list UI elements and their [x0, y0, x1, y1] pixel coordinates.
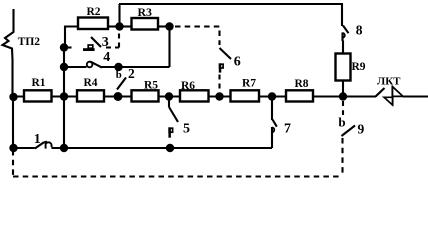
wire right branch down to switch 8: [341, 3, 343, 26]
contact 2 blade: [117, 66, 135, 90]
svg-text:4: 4: [103, 50, 110, 65]
resistor R5: [132, 80, 159, 102]
node left/bottom: [9, 144, 17, 152]
svg-text:R3: R3: [138, 5, 153, 19]
node rail2/bottom: [60, 144, 68, 152]
svg-text:R4: R4: [84, 77, 98, 89]
wire node up to top bus: [118, 4, 120, 27]
svg-text:ЛКТ: ЛКТ: [377, 75, 401, 87]
node rail2/sw3: [60, 43, 68, 51]
contact 4 blade: [90, 50, 110, 68]
node sw5 bottom: [166, 144, 174, 152]
arrester LKT symbol: [384, 86, 403, 106]
node R6/R7: [215, 92, 223, 100]
svg-text:R8: R8: [295, 78, 309, 90]
node TP2/R1: [9, 93, 17, 101]
wire switch 7 branch: [271, 97, 273, 121]
resistor R2: [78, 6, 108, 29]
label p of switch 6: [219, 63, 223, 72]
resistor R6: [180, 80, 209, 101]
node R8/R9: [339, 92, 347, 100]
svg-text:7: 7: [284, 121, 291, 136]
node R1/R4: [60, 92, 68, 100]
resistor R9: [336, 54, 366, 81]
wire R3 node down to switch4 row: [168, 27, 170, 68]
contact 8: [343, 22, 363, 41]
svg-text:5: 5: [183, 121, 190, 136]
resistor R1: [24, 77, 52, 101]
node sw2 top: [114, 63, 122, 71]
switch 3 branch: stub: [64, 46, 72, 48]
svg-text:R9: R9: [352, 61, 366, 73]
wire right out: [403, 95, 428, 97]
node R2/R3: [115, 22, 123, 30]
contact 3 blade: [91, 35, 109, 50]
wire resistor row segments: [13, 95, 375, 97]
wire switch8 to R9: [342, 41, 344, 55]
resistor R8: [286, 78, 313, 102]
wire R2 left branch: [65, 27, 78, 49]
contact 5 blade: [169, 107, 190, 136]
wire dashed from R3 node to switch 6: [175, 27, 220, 46]
contact 9 blade: [342, 121, 365, 136]
resistor R3: [132, 5, 159, 29]
dashed from node down to switch 9: [342, 101, 344, 115]
wire left rail dashed: [12, 150, 14, 177]
svg-text:R7: R7: [242, 78, 256, 90]
svg-text:2: 2: [128, 66, 135, 81]
wire dashed switch9 to bottom bus: [341, 138, 343, 177]
contact LKT blade: [375, 75, 401, 97]
wire R2 to node: [108, 25, 120, 27]
node R5/R6: [165, 92, 173, 100]
node R3 right: [165, 22, 173, 30]
svg-text:6: 6: [234, 54, 241, 69]
switch 4 row wire left: [64, 66, 87, 68]
svg-text:b: b: [338, 114, 345, 129]
svg-text:R2: R2: [87, 6, 101, 18]
svg-text:8: 8: [356, 22, 363, 37]
contact 6 blade: [220, 48, 241, 69]
svg-text:1: 1: [34, 132, 41, 147]
switch 4 row wire right: [102, 66, 170, 68]
wire R3 to node: [158, 25, 170, 27]
svg-text:9: 9: [358, 121, 365, 136]
resistor R7: [231, 78, 260, 102]
wire top bus: [119, 3, 342, 5]
contact 1: [34, 132, 52, 148]
wire bottom dashed bus: [13, 175, 343, 177]
wire node to R3: [120, 25, 132, 27]
wire R9 to node: [342, 81, 344, 97]
switch 5 stub: [168, 97, 170, 108]
wire second rail: [63, 48, 65, 149]
node R7/R8: [268, 92, 276, 100]
wire left rail solid: [12, 97, 14, 149]
svg-text:R6: R6: [181, 80, 195, 92]
node R4/R5: [114, 92, 123, 101]
label b of switch 3 (rotated): [83, 45, 95, 51]
svg-text:R5: R5: [144, 80, 158, 92]
contact 4 arc: [87, 62, 93, 68]
wire bottom row solid: [13, 147, 272, 149]
svg-text:ТП2: ТП2: [18, 36, 41, 48]
node dots: [9, 22, 347, 152]
wire dashed switch3 to R2R3 node: [106, 29, 119, 48]
resistor R4: [77, 77, 104, 101]
wire switch7 down to bottom wire: [271, 136, 273, 149]
node rail2/sw4: [60, 63, 68, 71]
label p of switch 5: [168, 127, 172, 137]
current collector TP2: [3, 9, 41, 97]
wire dashed switch6 to node: [218, 75, 220, 93]
contact 7: [272, 120, 291, 137]
svg-text:R1: R1: [32, 77, 46, 89]
